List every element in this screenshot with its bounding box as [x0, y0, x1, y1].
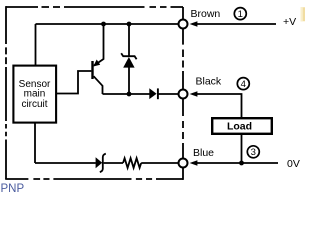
svg-text:0V: 0V: [287, 158, 300, 170]
svg-text:Black: Black: [196, 75, 222, 87]
svg-text:Brown: Brown: [191, 8, 221, 20]
svg-text:Load: Load: [227, 121, 252, 133]
svg-text:Blue: Blue: [193, 147, 214, 159]
svg-text:4: 4: [241, 79, 246, 90]
svg-text:3: 3: [251, 147, 256, 158]
svg-text:+V: +V: [283, 16, 296, 28]
svg-text:1: 1: [238, 9, 243, 20]
svg-text:circuit: circuit: [21, 99, 47, 110]
svg-text:PNP: PNP: [1, 183, 25, 195]
